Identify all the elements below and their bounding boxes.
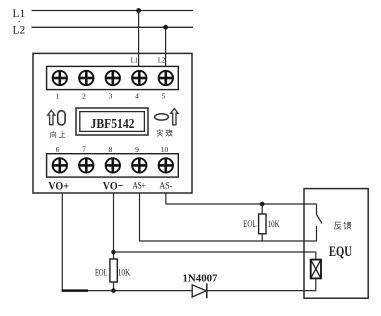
resistor EOL 10K (upper) (259, 204, 266, 241)
svg-text:4: 4 (135, 92, 139, 101)
pin number 1 (56, 92, 60, 101)
module JBF5142 enclosure (33, 53, 192, 193)
pin number 7 (82, 145, 86, 154)
terminal 8 (106, 158, 120, 172)
pin number 6 (56, 145, 60, 154)
terminal 5 (159, 71, 173, 85)
wire bottom bus to diode anode (88, 290, 192, 292)
svg-text:1N4007: 1N4007 (183, 273, 218, 284)
terminal 10 (159, 158, 173, 172)
svg-text:VO−: VO− (103, 179, 124, 193)
svg-text:AS+: AS+ (133, 181, 146, 191)
wire L2 power rail (32, 26, 194, 28)
coil (solenoid) in EQU (311, 252, 321, 291)
svg-text:AS-: AS- (159, 181, 172, 191)
junction bottom bus at EOL (111, 288, 116, 293)
svg-text:1: 1 (56, 92, 60, 101)
terminal 4 (132, 71, 146, 85)
wire AS- vertical (165, 193, 167, 204)
display JBF5142 (76, 108, 148, 135)
junction VO- node (111, 250, 116, 255)
svg-text:L2: L2 (158, 56, 165, 65)
net label L2 (13, 21, 26, 37)
net label L1 (13, 8, 26, 20)
wire VO- vertical (113, 193, 115, 259)
svg-text:5: 5 (162, 92, 166, 101)
pin label AS+ (133, 181, 146, 191)
button icon up-arrow (right) (171, 108, 178, 124)
pin number 8 (109, 145, 113, 154)
wire bottom bus bold segment (62, 289, 88, 292)
svg-text:EQU: EQU (329, 244, 352, 260)
terminal 2 (79, 71, 93, 85)
terminal 6 (53, 158, 67, 172)
svg-text:EOL: EOL (243, 219, 257, 229)
pin label VO- (103, 179, 124, 193)
value label EOL (lower resistor) (95, 267, 108, 277)
pin number 5 (162, 92, 166, 101)
label 反馈 (334, 222, 351, 230)
svg-text:2: 2 (82, 92, 86, 101)
svg-text:10K: 10K (118, 267, 131, 277)
wire L2 drop to terminal 5 (165, 27, 167, 66)
junction on L2 rail (163, 25, 168, 30)
wire L1 drop to terminal 4 (138, 11, 140, 67)
svg-text:7: 7 (82, 145, 86, 154)
terminal block upper (terminals 1-5) (47, 66, 179, 89)
pin number 3 (109, 92, 113, 101)
wire VO- to coil (horizontal) (114, 251, 316, 253)
terminal block lower (terminals 6-10) (47, 154, 179, 177)
pin label L2 (terminal 5) (158, 56, 165, 65)
terminal 1 (53, 71, 67, 85)
svg-text:L2: L2 (13, 25, 26, 37)
svg-text:10: 10 (161, 145, 169, 154)
wire AS- to switch (horizontal) (166, 203, 317, 205)
value label 10K (upper resistor) (268, 219, 280, 229)
wire AS+ vertical (139, 193, 141, 241)
value label 10K (lower resistor) (118, 267, 131, 277)
button icon oval (right) (155, 114, 169, 120)
wire diode cathode to coil (207, 290, 316, 292)
wire L1 power rail (32, 10, 194, 12)
button icon 0 (left) (58, 111, 65, 125)
value label EOL (upper resistor) (243, 219, 257, 229)
wire AS+ to switch (horizontal) (140, 240, 317, 242)
device EQU enclosure (304, 189, 368, 299)
pin number 10 (161, 145, 169, 154)
resistor EOL 10K (lower) (110, 259, 117, 291)
terminal 3 (106, 71, 120, 85)
svg-text:EOL: EOL (95, 267, 108, 277)
junction on L1 rail (136, 8, 141, 13)
svg-text:JBF5142: JBF5142 (91, 117, 135, 132)
pin number 4 (135, 92, 139, 101)
pin label L1 (terminal 4) (131, 56, 138, 65)
svg-text:9: 9 (135, 145, 139, 154)
label 安装 (157, 130, 173, 137)
wire VO+ vertical (61, 193, 63, 291)
diode 1N4007 (192, 283, 207, 298)
pin label AS- (159, 181, 172, 191)
label 向上 (51, 131, 66, 138)
terminal 7 (79, 158, 93, 172)
pin label VO+ (48, 179, 69, 193)
svg-text:VO+: VO+ (48, 179, 69, 193)
svg-text:10K: 10K (268, 219, 280, 229)
terminal 9 (132, 158, 146, 172)
switch feedback contact (317, 204, 323, 241)
button icon up-arrow (left) (48, 110, 55, 124)
svg-text:L1: L1 (131, 56, 138, 65)
svg-text:L1: L1 (13, 8, 26, 20)
value label 1N4007 (183, 273, 218, 284)
pin number 2 (82, 92, 86, 101)
svg-text:3: 3 (109, 92, 113, 101)
svg-text:6: 6 (56, 145, 60, 154)
svg-text:8: 8 (109, 145, 113, 154)
junction AS- line at EOL (upper) (260, 202, 265, 207)
pin number 9 (135, 145, 139, 154)
label EQU (329, 244, 352, 260)
